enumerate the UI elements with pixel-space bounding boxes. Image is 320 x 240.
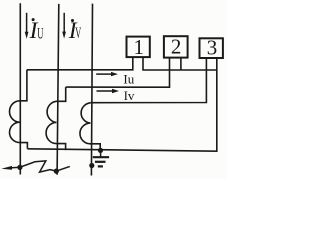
- svg-text:V: V: [75, 25, 81, 42]
- svg-text:1: 1: [134, 35, 145, 59]
- CT U secondary winding: [9, 70, 27, 149]
- CT V secondary winding: [46, 87, 66, 150]
- phase line U: [19, 3, 21, 174]
- arrow primary current V: [62, 13, 66, 39]
- phase line W: [91, 4, 92, 176]
- svg-text:2: 2: [171, 35, 182, 59]
- meter box 3: [200, 38, 223, 58]
- svg-text:Iu: Iu: [123, 72, 134, 87]
- meter box 2: [164, 36, 188, 57]
- svg-text:3: 3: [207, 35, 218, 59]
- arrow secondary current Iu: [96, 72, 118, 76]
- junction dot phase W: [89, 163, 94, 168]
- label I_V: [68, 18, 82, 44]
- ground symbol: [93, 150, 109, 166]
- wire Iv: CT V top to meter 2 left lead: [66, 58, 170, 88]
- phase line V: [57, 4, 59, 175]
- wire: meter 1 right lead to return bus: [143, 57, 217, 70]
- junction dot ground tap: [98, 148, 103, 153]
- arrow secondary current Iv: [97, 89, 120, 93]
- svg-text:U: U: [37, 25, 43, 42]
- svg-text:Iv: Iv: [124, 88, 135, 103]
- CT W secondary winding: [80, 103, 100, 151]
- wire: meter 2 right lead drop: [180, 58, 182, 70]
- meter box 1: [127, 37, 150, 58]
- wire: meter 3 right lead down to bottom common bus: [27, 58, 216, 151]
- wire: CT W top to meter 3 left lead: [90, 58, 206, 103]
- left arrowhead: [1, 166, 12, 170]
- wire Iu: CT U top to meter 1 left lead: [27, 57, 133, 70]
- label I_U: [29, 18, 44, 44]
- junction dot phase V: [54, 169, 59, 174]
- junction dot phase U: [17, 165, 22, 170]
- fault polyline with left arrow: [8, 161, 70, 172]
- arrow primary current U: [25, 13, 29, 39]
